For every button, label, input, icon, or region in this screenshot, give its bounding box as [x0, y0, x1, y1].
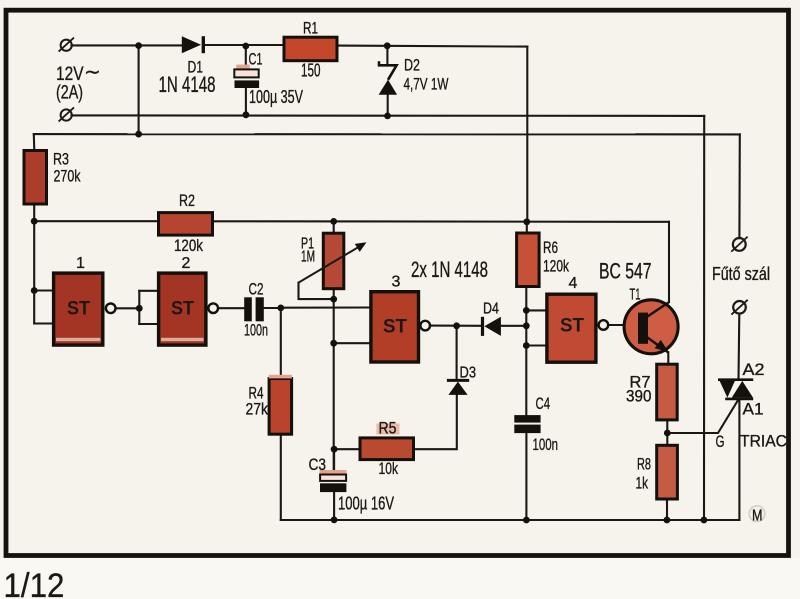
svg-text:G: G — [716, 432, 725, 451]
svg-text:1k: 1k — [636, 474, 649, 493]
svg-text:27k: 27k — [246, 400, 269, 419]
svg-text:2: 2 — [182, 255, 191, 272]
svg-text:BC 547: BC 547 — [599, 259, 652, 284]
svg-text:ST: ST — [560, 316, 584, 337]
svg-text:R6: R6 — [543, 238, 558, 257]
svg-text:150: 150 — [301, 61, 321, 81]
svg-text:R8: R8 — [637, 455, 651, 474]
svg-text:∼: ∼ — [84, 62, 101, 84]
svg-text:100µ 16V: 100µ 16V — [338, 494, 394, 514]
svg-text:120k: 120k — [543, 257, 569, 276]
svg-text:390: 390 — [626, 387, 652, 406]
svg-text:A1: A1 — [743, 400, 764, 419]
svg-text:D4: D4 — [483, 301, 499, 318]
svg-text:R2: R2 — [179, 191, 195, 210]
svg-text:C1: C1 — [249, 50, 263, 69]
svg-text:ST: ST — [171, 299, 194, 320]
svg-text:(2A): (2A) — [56, 83, 83, 104]
svg-text:C3: C3 — [309, 455, 327, 474]
svg-text:1N 4148: 1N 4148 — [159, 72, 216, 97]
svg-text:1: 1 — [76, 255, 85, 272]
svg-text:ST: ST — [383, 317, 407, 338]
svg-text:C2: C2 — [249, 280, 264, 299]
svg-text:TRIAC: TRIAC — [740, 432, 787, 451]
svg-text:1/12: 1/12 — [4, 567, 65, 599]
svg-text:1M: 1M — [301, 249, 315, 266]
svg-text:D3: D3 — [460, 365, 477, 382]
svg-text:T1: T1 — [630, 287, 641, 304]
svg-text:3: 3 — [392, 274, 401, 291]
svg-text:R1: R1 — [303, 19, 318, 38]
svg-text:10k: 10k — [379, 459, 399, 478]
svg-text:100n: 100n — [244, 321, 268, 340]
svg-text:2x 1N 4148: 2x 1N 4148 — [411, 257, 488, 282]
svg-text:M: M — [752, 508, 763, 525]
svg-text:C4: C4 — [536, 394, 551, 413]
svg-text:Fűtő szál: Fűtő szál — [712, 264, 770, 284]
svg-text:120k: 120k — [174, 236, 203, 255]
svg-text:4,7V 1W: 4,7V 1W — [404, 75, 449, 94]
svg-text:100µ 35V: 100µ 35V — [249, 87, 303, 107]
svg-text:100n: 100n — [533, 435, 559, 454]
svg-text:R5: R5 — [379, 419, 397, 438]
svg-text:A2: A2 — [743, 360, 765, 379]
svg-text:270k: 270k — [54, 167, 81, 186]
svg-text:D2: D2 — [404, 56, 420, 75]
svg-text:4: 4 — [569, 275, 578, 292]
svg-text:ST: ST — [67, 299, 90, 320]
